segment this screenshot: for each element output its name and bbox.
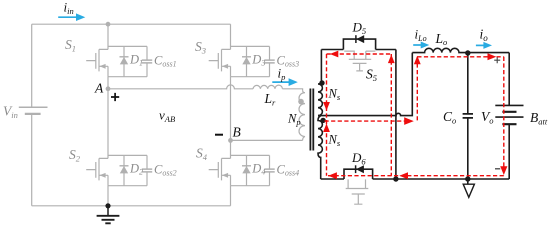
ground primary dot [105,203,110,208]
svg-text:vAB: vAB [159,108,175,125]
svg-text:D6: D6 [351,150,366,167]
wire top rail [32,23,231,25]
svg-text:S4: S4 [196,146,208,163]
transformer core [310,89,313,151]
capacitor Co branch [467,53,469,179]
red arrow right center tap [404,117,414,125]
ground primary [107,206,109,216]
diode D5 cathode bar [355,35,357,43]
wire S2 source to bottom rail [107,186,109,206]
winding Ns bottom [318,116,322,179]
arrow i_Lo line [413,44,421,46]
svg-text:S3: S3 [195,39,206,56]
capacitor Coss1 [142,60,152,63]
svg-text:Coss2: Coss2 [154,162,177,177]
wire red center tap line [325,120,412,122]
wire S3 drain branch [230,24,232,49]
red arrow up to Lo [414,56,421,65]
S4 source arrow [222,173,228,178]
red arrow left bottom line mid [399,172,408,179]
wire battery branch [508,53,510,179]
arrow i_in line [58,16,76,18]
wire red output right vertical [503,57,505,176]
arrow i_in head [76,13,85,21]
svg-text:iin: iin [64,0,74,16]
diode D3 [242,56,251,58]
diode D6 cathode bar [355,165,357,173]
arrow i_p head [289,78,298,86]
arrow i_Lo head [421,42,430,49]
wire node A to Lr with hop over S3S4 branch [108,85,253,89]
wire left vertical (Vin branch) [31,24,33,206]
Ns bottom polarity dot [320,118,325,123]
junction dot Lo-Co [465,50,470,55]
S3 source arrow [222,64,228,69]
transistor S1 [86,49,108,76]
S2 source arrow [99,173,105,178]
wire node B down to S4 [230,140,232,158]
red arrow up right of S5 [388,55,395,64]
red arrow down top Ns [323,102,330,111]
diode D1 [120,56,129,58]
svg-text:Ns: Ns [328,133,341,148]
svg-text:D3: D3 [251,53,265,68]
diode D4 triangle [242,166,250,173]
svg-text:Coss1: Coss1 [154,53,177,68]
winding Ns top [318,50,322,116]
capacitor Co plates [463,114,473,118]
diode D6 triangle [356,165,364,173]
svg-text:B: B [233,125,241,140]
Np polarity dot [298,99,304,105]
svg-text:Batt: Batt [530,110,548,127]
diode D3 triangle [242,57,250,64]
svg-text:Vin: Vin [3,104,18,121]
capacitor Coss4 [264,169,274,172]
transistor S6 gray body [346,179,369,204]
wire right vertical to bottom rail [395,50,397,180]
svg-text:D1: D1 [129,53,143,68]
wire S3 source to node B [230,77,232,141]
arrow i_o head [483,42,492,49]
wire red D5 line [327,53,392,55]
inductor Lr coil [253,85,282,89]
wire bottom rail [32,205,231,207]
wire S1 drain branch [107,24,109,49]
node A dot [106,86,111,91]
wire Lr to Np [282,89,302,90]
inductor Lo coil [412,48,509,52]
svg-text:D2: D2 [129,162,143,177]
wire S1 source to node A [107,77,109,89]
junction dot bottom rail [393,176,398,181]
wire center tap with hop [318,53,412,116]
wire red vertical to Lo [416,57,418,121]
arrow i_p line [272,81,289,83]
red arrow down output right [500,166,507,175]
svg-text:A: A [94,81,104,96]
red arrow up bottom Ns [323,124,330,133]
winding Np primary coil [299,90,305,140]
Ns top polarity dot [319,80,324,85]
wire S4 source to bottom rail [230,186,232,206]
diode D2 triangle [120,166,128,173]
battery Vin plates [19,106,48,108]
transistor S3 [209,49,231,76]
junction dot Co-ground [465,176,470,181]
diode D1 triangle [120,57,128,64]
capacitor Coss3 [264,60,274,63]
red arrow right output top [488,53,497,60]
wire node A down to S2 [107,89,109,159]
svg-text:S2: S2 [69,147,81,164]
transistor S5 gray body [344,51,375,71]
red arrow left bottom line near transformer [328,172,337,179]
S1 source arrow [99,64,105,69]
svg-text:Ns: Ns [328,87,341,102]
junction dot top rail [106,22,111,27]
wire D5 branch [321,39,396,49]
diode D2 [120,165,129,167]
diode D5 triangle [356,35,364,43]
svg-text:S1: S1 [65,37,76,54]
red arrow left on D5 line [330,51,339,58]
svg-text:D4: D4 [251,162,265,177]
gray filled parts [99,22,303,178]
wire red vertical along secondary [326,54,328,176]
transistor S4 [209,158,231,185]
wire node B to Np bottom [231,139,303,141]
svg-text:Np: Np [287,112,301,127]
wire red vertical right of S5 [390,54,392,176]
svg-text:Coss4: Coss4 [277,162,300,177]
diode D4 [242,165,251,167]
ground output stem [467,179,469,184]
svg-text:iLo: iLo [415,27,427,44]
wire red output top [417,56,504,58]
node B dot [228,138,233,143]
battery Batt plates [495,105,523,117]
svg-text:S5: S5 [366,67,377,84]
wire bottom rail secondary [321,169,510,179]
svg-text:Co: Co [443,109,456,126]
svg-text:Lo: Lo [435,31,448,47]
ground output triangle [463,184,474,197]
arrow i_o line [476,44,484,46]
svg-text:D5: D5 [352,20,367,37]
svg-text:Lr: Lr [264,91,277,108]
capacitor Coss2 [142,169,152,172]
wire red bottom line [327,175,504,177]
svg-text:io: io [480,27,489,44]
svg-text:Vo: Vo [481,109,494,126]
transistor S2 [86,158,108,185]
